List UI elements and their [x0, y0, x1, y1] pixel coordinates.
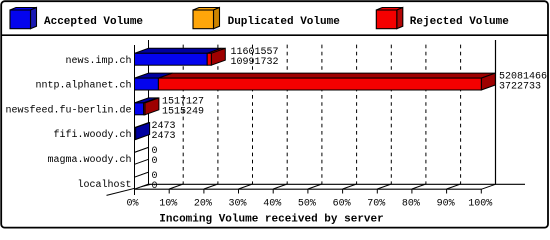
svg-text:0: 0: [152, 156, 158, 167]
svg-text:50%: 50%: [298, 199, 316, 210]
x-axis tick marks: [169, 189, 481, 194]
legend cube Duplicated (orange): [193, 8, 220, 29]
magma.woody.ch zero bar: [135, 147, 149, 164]
svg-text:localhost: localhost: [77, 179, 131, 191]
news.imp.ch bar: [135, 48, 226, 65]
back y-axis line: [148, 40, 150, 184]
svg-text:10%: 10%: [159, 199, 177, 210]
svg-text:newsfeed.fu-berlin.de: newsfeed.fu-berlin.de: [5, 105, 131, 117]
nntp.alphanet.ch bar: [135, 73, 496, 90]
front y-axis line: [134, 45, 136, 195]
svg-text:0: 0: [152, 181, 158, 192]
fifi.woody.ch bar: [135, 123, 150, 140]
front x-axis line: [135, 188, 482, 190]
svg-text:0%: 0%: [126, 199, 138, 210]
svg-text:20%: 20%: [194, 199, 212, 210]
dashed percent grid lines (back plane): [183, 41, 460, 184]
svg-text:1515249: 1515249: [162, 107, 204, 118]
localhost zero bar: [135, 172, 149, 189]
svg-text:10991732: 10991732: [231, 57, 279, 68]
svg-text:fifi.woody.ch: fifi.woody.ch: [53, 129, 131, 141]
svg-text:100%: 100%: [468, 199, 492, 210]
svg-text:40%: 40%: [263, 199, 281, 210]
svg-text:3722733: 3722733: [499, 82, 541, 93]
legend cube Rejected (red): [376, 8, 403, 29]
svg-text:30%: 30%: [228, 199, 246, 210]
newsfeed.fu-berlin.de bar: [135, 98, 159, 115]
svg-text:Rejected Volume: Rejected Volume: [410, 16, 509, 28]
svg-text:2473: 2473: [152, 131, 176, 142]
svg-text:80%: 80%: [402, 199, 420, 210]
legend cube Accepted (blue): [10, 8, 37, 29]
svg-text:Accepted Volume: Accepted Volume: [44, 16, 143, 28]
svg-text:90%: 90%: [437, 199, 455, 210]
x-axis 3d end diagonal: [482, 184, 496, 189]
x-axis origin floor diagonal: [107, 184, 151, 195]
floor tick connectors (front to back): [169, 184, 460, 189]
svg-text:70%: 70%: [367, 199, 385, 210]
back x-axis line: [149, 183, 526, 185]
legend separator line: [2, 34, 548, 36]
svg-text:magma.woody.ch: magma.woody.ch: [47, 154, 131, 166]
svg-text:Incoming Volume received by se: Incoming Volume received by server: [159, 214, 383, 226]
svg-text:news.imp.ch: news.imp.ch: [65, 55, 131, 67]
svg-text:Duplicated Volume: Duplicated Volume: [228, 16, 341, 28]
svg-text:nntp.alphanet.ch: nntp.alphanet.ch: [35, 80, 131, 92]
svg-text:60%: 60%: [333, 199, 351, 210]
right chart border (back plane 100%): [495, 40, 497, 184]
